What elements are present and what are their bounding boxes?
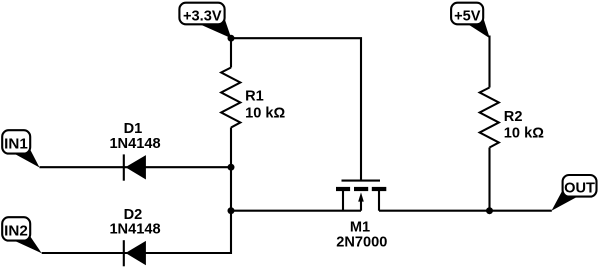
svg-text:1N4148: 1N4148 [109,136,160,152]
svg-text:D1: D1 [124,121,143,137]
svg-text:IN1: IN1 [4,135,28,152]
svg-text:M1: M1 [350,219,370,235]
svg-text:2N7000: 2N7000 [336,234,387,250]
svg-text:10 kΩ: 10 kΩ [504,126,544,142]
svg-text:R2: R2 [504,109,523,125]
svg-text:+3.3V: +3.3V [183,8,222,24]
svg-text:1N4148: 1N4148 [109,222,160,238]
svg-text:R1: R1 [245,89,264,105]
svg-text:+5V: +5V [454,8,481,24]
svg-text:IN2: IN2 [4,223,28,240]
svg-text:OUT: OUT [564,180,595,196]
svg-text:10 kΩ: 10 kΩ [245,105,285,121]
svg-text:D2: D2 [124,207,143,223]
